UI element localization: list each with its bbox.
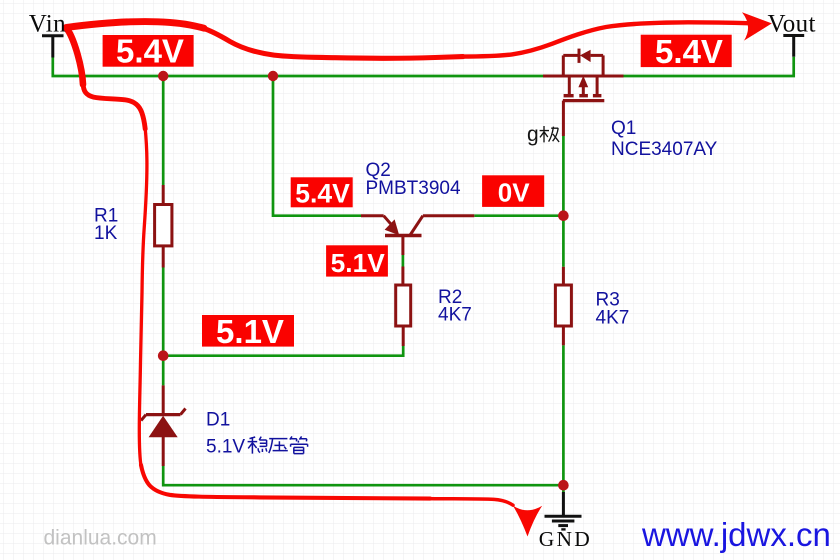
- red current path left-bottom (vertical): [139, 127, 147, 467]
- red current path left-bottom (jog): [83, 83, 145, 129]
- svg-text:Vin: Vin: [29, 10, 66, 37]
- red arrow at Vout: [742, 12, 772, 40]
- wire Q2 base to R2: [402, 255, 405, 267]
- diode D1 (zener): [141, 385, 186, 466]
- ground: [545, 492, 582, 529]
- wire top rail left (Vin to Q1): [53, 58, 543, 77]
- resistor R3: [555, 267, 571, 346]
- wire R1 branch vertical: [162, 76, 165, 185]
- red current path left-bottom (corner and run): [141, 465, 430, 499]
- voltage label 5.1V at Q2 base: [326, 245, 388, 278]
- svg-text:Q1: Q1: [611, 118, 636, 139]
- svg-text:5.1V: 5.1V: [216, 313, 284, 350]
- junction ground node: [558, 480, 569, 491]
- wire Q2 collector to gate node: [474, 214, 563, 217]
- svg-text:GND: GND: [539, 527, 592, 551]
- wire Q2 emitter branch: [273, 76, 361, 216]
- label g-pole (g极): [527, 123, 559, 146]
- terminal Vout: [783, 36, 804, 57]
- svg-text:5.4V: 5.4V: [295, 179, 350, 209]
- label Q2 value: [366, 160, 461, 199]
- wire gate vertical: [562, 136, 565, 216]
- wire gate node to R3: [562, 216, 565, 267]
- svg-text:dianlua.com: dianlua.com: [44, 527, 157, 550]
- resistor R2: [396, 267, 411, 347]
- svg-text:PMBT3904: PMBT3904: [366, 178, 461, 199]
- junction gate node: [558, 210, 569, 221]
- svg-text:5.1V: 5.1V: [331, 248, 386, 278]
- label R2 value: [438, 287, 472, 326]
- voltage label 5.4V top-left: [103, 33, 194, 70]
- svg-text:Vout: Vout: [768, 10, 816, 37]
- wire node A to D1: [162, 356, 165, 386]
- svg-text:NCE3407AY: NCE3407AY: [611, 139, 718, 160]
- svg-text:5.4V: 5.4V: [116, 33, 184, 70]
- label D1: [206, 410, 245, 458]
- junction top rail at R1: [158, 71, 168, 81]
- label R1 value: [94, 206, 118, 245]
- voltage label 5.4V top-right: [641, 33, 732, 70]
- svg-text:0V: 0V: [498, 178, 530, 208]
- red current path top (middle dip): [202, 28, 463, 59]
- resistor R1: [155, 185, 172, 268]
- svg-text:g: g: [527, 123, 539, 146]
- svg-text:4K7: 4K7: [596, 308, 630, 329]
- wire ground node stub: [562, 485, 565, 492]
- transistor Q1 (P-MOSFET): [543, 49, 624, 136]
- red current path top (tail to arrow): [461, 22, 748, 56]
- terminal Vin: [42, 36, 64, 58]
- wire R1 to node A: [162, 268, 165, 356]
- svg-text:5.1V: 5.1V: [206, 436, 245, 457]
- voltage label 5.4V at Q2 emitter: [291, 177, 353, 208]
- red current path left-bottom (start drop): [66, 28, 83, 85]
- wire R2 bottom to node A: [163, 346, 403, 356]
- svg-text:D1: D1: [206, 410, 230, 431]
- wire R3 to ground node: [562, 345, 565, 485]
- label Q1 value: [611, 118, 718, 160]
- svg-text:5.4V: 5.4V: [655, 33, 723, 70]
- svg-text:1K: 1K: [94, 223, 118, 244]
- label D1 zener CJK (stylized 稳压管): [248, 436, 308, 453]
- svg-text:4K7: 4K7: [438, 305, 472, 326]
- junction node A: [158, 350, 169, 361]
- red current path tail to arrow: [428, 499, 513, 506]
- svg-text:www.jdwx.cn: www.jdwx.cn: [641, 516, 831, 553]
- red current path top (thick start): [66, 22, 204, 29]
- label R3 value: [596, 290, 630, 329]
- wire D1 to ground rail: [163, 466, 563, 485]
- red arrow at GND: [513, 506, 542, 537]
- transistor Q2: [361, 216, 474, 255]
- junction top rail at Q2 branch: [268, 71, 278, 81]
- voltage label 0V: [482, 175, 544, 207]
- wire top rail right (Q1 to Vout): [624, 57, 794, 76]
- voltage label 5.1V at node A: [202, 313, 294, 350]
